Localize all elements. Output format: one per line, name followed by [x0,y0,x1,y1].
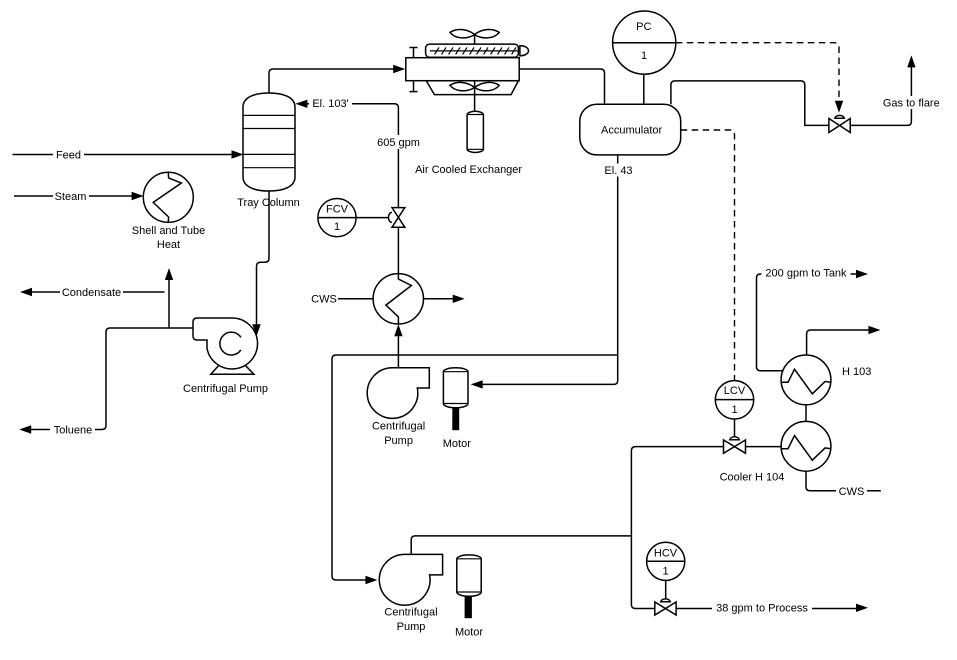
svg-text:1: 1 [662,565,668,577]
wire pump2 discharge [411,536,631,555]
wire flare valve outlet [850,67,911,125]
wire condensate arrowhead [20,288,32,296]
valve HCV actuator dome [661,599,671,602]
svg-text:200 gpm to Tank: 200 gpm to Tank [765,267,847,279]
node CWS bottom label [836,485,867,498]
air cooled exchanger plenum trapezoid [426,81,518,95]
svg-text:Condensate: Condensate [62,287,121,299]
svg-text:Motor: Motor [455,627,483,639]
svg-text:1: 1 [334,221,340,233]
node Toluene label [50,423,95,436]
motor 2 (bottom) [457,555,481,596]
svg-text:El. 43: El. 43 [604,165,632,177]
svg-text:1: 1 [641,50,647,62]
instrument HCV circle [647,542,685,580]
wire H103 to H104 [805,405,807,422]
valve flare control valve actuator dome [835,115,845,118]
wire column top to air cooled exchanger [269,69,394,93]
wire exchanger outlet to accumulator [519,69,604,104]
valve LCV control valve [724,440,746,453]
motor 1 shaft stem [452,408,459,431]
motor 1 (middle) [443,368,468,408]
wire vertical vent with up arrow [168,280,170,329]
wire PC stem [643,74,645,104]
valve HCV control valve [655,602,676,615]
svg-text:Centrifugal: Centrifugal [372,421,425,433]
wire HCV outlet to process [676,608,856,610]
svg-text:Steam: Steam [55,191,87,203]
node El. 103' label [309,97,352,110]
heat exchanger shell and tube [143,172,193,222]
wire El.103 arrowhead [295,100,307,108]
svg-text:38 gpm to Process: 38 gpm to Process [716,602,808,614]
svg-text:CWS: CWS [839,486,865,498]
mounting bracket top [410,48,418,58]
motor 2 shaft stem [465,596,472,618]
wire arrowhead into pump2 [365,576,377,584]
wire accumulator to flare valve [671,81,829,126]
wire Steam arrowhead [132,192,144,200]
svg-text:H 103: H 103 [842,366,871,378]
svg-text:1: 1 [731,404,737,416]
wire LCV stem [734,419,736,437]
node 605 gpm label [375,135,422,149]
wire pump1 suction header [31,328,193,430]
mounting bracket bottom [410,81,418,92]
wire arrowhead up flare [907,55,915,67]
wire arrow into exchanger [393,65,405,73]
pump1 feet [211,365,254,374]
svg-text:PC: PC [636,21,651,33]
cooler CWS exchanger [373,274,423,324]
instrument PC circle [613,11,676,74]
wire toluene arrowhead [19,425,31,433]
wire arrowhead to tank [856,270,868,278]
svg-text:LCV: LCV [724,385,746,397]
wire up arrowhead [165,268,173,280]
svg-text:El. 103': El. 103' [312,98,348,110]
air cooled exchanger finned top box [426,44,519,57]
air cooled exchanger motor cylinder [467,111,483,152]
wire dashed accumulator to LCV [681,130,735,381]
wire H103 top outlet [807,330,869,355]
pump centrifugal pump 1 [193,318,258,369]
cooler H 103 [781,355,831,405]
air cooled exchanger shaft [474,35,476,111]
wire LCV valve to vertical header [631,447,723,609]
valve FCV actuator arc [388,212,391,222]
svg-text:CWS: CWS [311,294,337,306]
svg-text:Feed: Feed [56,149,81,161]
wire pump to CWS exchanger [397,335,399,368]
svg-text:Shell and Tube: Shell and Tube [132,225,205,237]
wire HCV stem [665,580,667,598]
wire El.103 leader [308,104,399,207]
svg-text:Pump: Pump [384,435,413,447]
svg-text:Cooler H 104: Cooler H 104 [720,471,785,483]
wire condensate line [32,291,165,293]
svg-text:Heat: Heat [157,239,180,251]
tray column [243,93,295,191]
wire dashed PC signal [676,43,839,100]
wire Feed arrowhead [232,150,244,158]
wire arrowhead up into cooler [394,324,402,336]
wire arrowhead to process [856,604,868,612]
pump centrifugal pump 2 (bottom) [379,554,442,605]
wire Steam line [14,195,133,197]
wire Feed line [13,154,233,156]
wire arrowhead PC signal down [835,101,843,113]
svg-text:HCV: HCV [654,548,678,560]
wire LCV valve to cooler H104 [746,446,782,448]
wire arrowhead down into pump1 [252,324,260,336]
svg-text:Motor: Motor [443,438,471,450]
valve flare control valve [829,119,850,133]
air cooled exchanger top fan [450,29,499,37]
svg-text:605 gpm: 605 gpm [377,137,420,149]
wire arrowhead into motor1 [471,380,483,388]
valve FCV control valve [392,208,405,228]
wire CWS inlet [338,298,373,300]
finned tube hatched line [430,50,520,52]
wire CWS exchanger outlet [424,298,454,300]
wire H104 CWS outlet [806,471,881,491]
instrument FCV circle [318,199,356,237]
svg-text:Gas to flare: Gas to flare [883,97,940,109]
air cooled exchanger body [406,58,519,81]
node El. 43 label [600,164,637,177]
svg-text:Pump: Pump [397,621,426,633]
instrument LCV circle [715,381,753,419]
node Gas to flare label [881,96,942,109]
wire H103 to tank [757,274,857,371]
valve LCV actuator dome [730,437,740,440]
wire arrowhead H103 outlet [868,326,880,334]
svg-text:Centrifugal Pump: Centrifugal Pump [183,383,268,395]
svg-text:FCV: FCV [326,203,349,215]
wire outlet arrowhead [453,295,465,303]
node Feed label [53,148,84,161]
svg-text:Accumulator: Accumulator [601,125,662,137]
wire column bottom to pump1 [257,191,270,325]
finned tube end cap D [520,46,529,56]
svg-text:Air Cooled Exchanger: Air Cooled Exchanger [415,164,522,176]
air cooled exchanger bottom fan [450,82,499,90]
node Steam label [53,190,89,203]
svg-text:Centrifugal: Centrifugal [384,606,437,618]
svg-text:Toluene: Toluene [54,424,93,436]
pump centrifugal pump 3 (middle) [367,368,429,419]
wire FCV valve to cooler [397,227,399,273]
wire recycle header to pump2 [332,355,618,580]
wire accumulator El.43 line to motor1 [482,155,618,384]
cooler H 104 [781,421,831,471]
pump1 impeller C arc [220,332,241,355]
node Condensate label [60,286,123,299]
accumulator [580,104,681,155]
node 38 gpm to Process label [712,601,812,614]
tray lines [243,115,295,167]
node 200 gpm to Tank label [762,266,851,279]
